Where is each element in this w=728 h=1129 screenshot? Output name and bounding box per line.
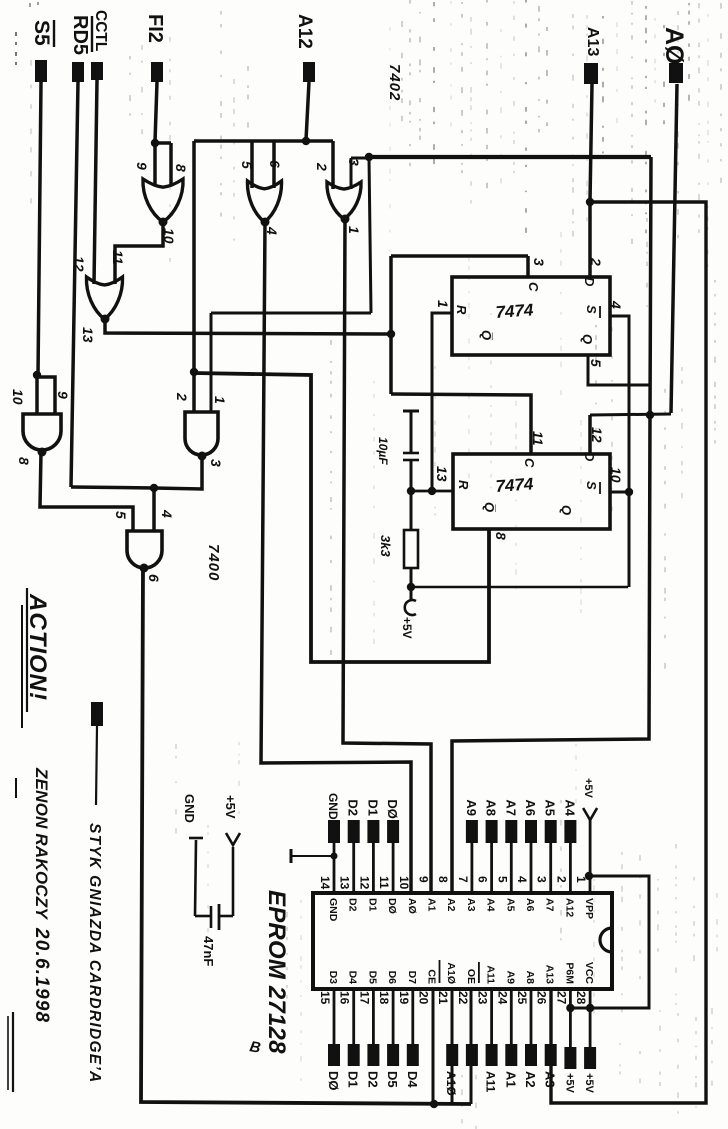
svg-text:5: 5	[113, 511, 129, 519]
svg-text:P6M: P6M	[563, 962, 575, 984]
svg-text:11: 11	[377, 876, 391, 889]
svg-text:4: 4	[515, 876, 529, 883]
svg-text:10: 10	[10, 389, 26, 405]
svg-text:R: R	[456, 480, 471, 490]
svg-text:A6: A6	[523, 799, 538, 816]
svg-text:A4: A4	[485, 898, 497, 912]
svg-text:13: 13	[338, 876, 352, 890]
svg-text:7400: 7400	[205, 544, 222, 581]
svg-text:Q̅: Q̅	[482, 502, 497, 512]
svg-text:A11: A11	[485, 965, 497, 984]
svg-text:6: 6	[476, 876, 490, 883]
svg-text:3: 3	[346, 158, 362, 166]
svg-text:15: 15	[318, 991, 332, 1005]
svg-text:D5: D5	[385, 1071, 400, 1088]
svg-text:20.6.1998: 20.6.1998	[31, 927, 52, 1023]
svg-text:18: 18	[377, 991, 391, 1005]
svg-text:S5: S5	[30, 20, 53, 46]
svg-text:CCTL: CCTL	[92, 10, 109, 51]
svg-text:5: 5	[495, 876, 509, 883]
svg-text:22: 22	[456, 991, 470, 1005]
svg-text:D4: D4	[347, 971, 359, 985]
svg-text:GND: GND	[182, 794, 197, 823]
svg-text:DØ: DØ	[326, 1071, 341, 1091]
svg-text:7: 7	[456, 876, 470, 883]
svg-text:13: 13	[80, 327, 96, 343]
svg-text:DØ: DØ	[385, 799, 400, 819]
svg-text:A9: A9	[464, 799, 479, 816]
svg-text:7474: 7474	[495, 474, 535, 496]
svg-text:D2: D2	[347, 898, 359, 912]
svg-text:6: 6	[267, 160, 283, 168]
svg-text:9: 9	[134, 162, 150, 170]
svg-text:1: 1	[435, 300, 451, 308]
svg-text:5: 5	[588, 359, 604, 367]
svg-text:A7: A7	[503, 799, 518, 816]
svg-text:10: 10	[397, 876, 411, 890]
svg-text:D4: D4	[405, 1071, 420, 1088]
svg-text:Q: Q	[580, 334, 595, 344]
svg-text:2: 2	[588, 257, 604, 266]
svg-text:C: C	[526, 282, 541, 292]
svg-text:25: 25	[515, 991, 529, 1005]
svg-text:S: S	[584, 481, 599, 490]
svg-text:28: 28	[574, 991, 588, 1005]
svg-text:11: 11	[530, 431, 546, 446]
svg-text:A3: A3	[465, 898, 477, 912]
svg-text:17: 17	[357, 991, 371, 1005]
svg-text:D2: D2	[365, 1071, 380, 1088]
svg-text:14: 14	[318, 876, 332, 890]
svg-text:10: 10	[161, 228, 177, 244]
svg-text:A1Ø: A1Ø	[445, 962, 457, 984]
svg-text:A12: A12	[294, 14, 315, 49]
svg-text:4: 4	[608, 300, 624, 309]
svg-text:D7: D7	[406, 971, 418, 985]
svg-text:STYK GNIAZDA CARDRIDGE’A: STYK GNIAZDA CARDRIDGE’A	[86, 823, 103, 1084]
svg-text:A13: A13	[584, 27, 601, 56]
svg-text:D: D	[582, 452, 597, 462]
svg-text:A2: A2	[523, 1071, 538, 1088]
svg-text:AØ: AØ	[406, 898, 418, 914]
svg-text:26: 26	[535, 991, 549, 1005]
svg-text:11: 11	[110, 250, 126, 265]
svg-text:12: 12	[71, 256, 87, 272]
svg-text:8: 8	[436, 876, 450, 883]
svg-text:VPP: VPP	[583, 898, 595, 919]
svg-text:FI2: FI2	[144, 14, 166, 43]
svg-text:Q: Q	[559, 505, 574, 515]
svg-text:23: 23	[476, 991, 490, 1005]
svg-text:D6: D6	[386, 971, 398, 985]
svg-text:3: 3	[535, 876, 549, 883]
svg-text:CE: CE	[426, 969, 438, 984]
svg-text:A5: A5	[543, 799, 558, 816]
svg-text:16: 16	[338, 991, 352, 1005]
svg-text:VCC: VCC	[583, 962, 595, 985]
svg-text:A8: A8	[484, 799, 499, 816]
svg-text:8: 8	[173, 164, 189, 172]
svg-text:D1: D1	[365, 799, 380, 816]
svg-text:D3: D3	[327, 971, 339, 985]
svg-text:S: S	[584, 305, 599, 314]
svg-text:47nF: 47nF	[201, 936, 216, 966]
svg-text:A3: A3	[543, 1071, 558, 1088]
svg-text:GND: GND	[326, 793, 340, 820]
svg-text:4: 4	[159, 509, 175, 518]
svg-text:EPROM 27128: EPROM 27128	[263, 890, 290, 1054]
svg-text:ZENON RAKOCZY: ZENON RAKOCZY	[32, 767, 51, 920]
svg-text:A12: A12	[563, 898, 575, 917]
svg-text:A5: A5	[504, 898, 516, 912]
svg-text:DØ: DØ	[386, 898, 398, 914]
svg-text:C: C	[522, 458, 537, 468]
svg-text:6: 6	[146, 574, 162, 582]
svg-text:7402: 7402	[386, 64, 403, 101]
svg-text:Q̅: Q̅	[479, 330, 494, 340]
svg-text:A6: A6	[524, 898, 536, 912]
svg-text:R: R	[454, 305, 469, 315]
svg-text:GND: GND	[327, 898, 339, 922]
svg-text:OE: OE	[465, 969, 477, 984]
svg-text:A1Ø: A1Ø	[444, 1071, 458, 1096]
svg-text:+5V: +5V	[563, 1073, 575, 1094]
svg-text:A13: A13	[544, 965, 556, 984]
svg-text:5: 5	[239, 161, 255, 169]
svg-text:8: 8	[16, 457, 32, 465]
svg-text:A1: A1	[503, 1071, 518, 1088]
svg-text:A1: A1	[426, 898, 438, 912]
svg-text:2: 2	[554, 876, 568, 883]
svg-text:2: 2	[314, 162, 330, 171]
svg-text:8: 8	[493, 532, 509, 540]
svg-text:1: 1	[346, 226, 362, 234]
svg-text:24: 24	[495, 991, 509, 1005]
svg-text:1: 1	[574, 876, 588, 883]
svg-text:10: 10	[608, 467, 624, 483]
svg-text:2: 2	[174, 392, 190, 401]
svg-text:A8: A8	[524, 971, 536, 985]
svg-text:A2: A2	[445, 898, 457, 912]
svg-text:3: 3	[531, 258, 547, 266]
svg-text:3k3: 3k3	[378, 535, 393, 557]
svg-text:+5V: +5V	[582, 778, 594, 799]
svg-text:AØ: AØ	[660, 27, 688, 65]
svg-text:9: 9	[55, 391, 71, 399]
svg-text:+5V: +5V	[223, 795, 238, 819]
svg-text:D: D	[582, 277, 597, 287]
svg-text:B: B	[248, 1038, 262, 1057]
svg-text:RD5: RD5	[69, 15, 91, 55]
svg-text:1: 1	[212, 396, 228, 404]
svg-text:10µF: 10µF	[376, 437, 390, 465]
svg-text:9: 9	[417, 876, 431, 883]
svg-text:13: 13	[434, 466, 450, 482]
svg-text:D1: D1	[366, 898, 378, 912]
svg-text:12: 12	[589, 427, 605, 443]
svg-text:A7: A7	[544, 898, 556, 912]
svg-text:+5V: +5V	[400, 617, 414, 639]
svg-text:27: 27	[554, 991, 568, 1005]
svg-text:D2: D2	[346, 799, 361, 816]
svg-text:21: 21	[436, 991, 450, 1005]
svg-text:20: 20	[417, 991, 431, 1005]
svg-text:D5: D5	[366, 971, 378, 985]
svg-text:A11: A11	[484, 1071, 498, 1093]
svg-text:A4: A4	[562, 799, 577, 816]
svg-text:+5V: +5V	[583, 1073, 595, 1094]
svg-text:4: 4	[264, 226, 280, 235]
svg-text:7474: 7474	[495, 300, 535, 322]
svg-text:A9: A9	[504, 971, 516, 985]
svg-text:19: 19	[397, 991, 411, 1005]
svg-text:12: 12	[357, 876, 371, 890]
svg-text:3: 3	[208, 459, 224, 467]
svg-text:D1: D1	[346, 1071, 361, 1088]
